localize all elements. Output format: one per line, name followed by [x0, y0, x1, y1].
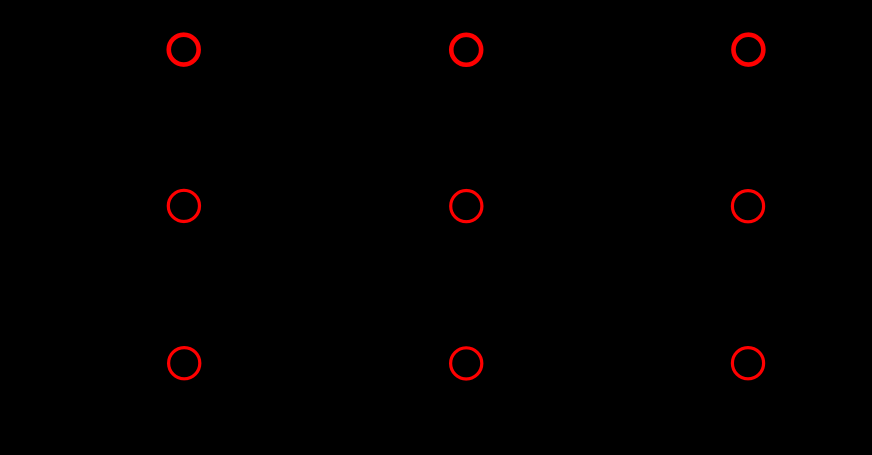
- wire: bond C19-C20: [608, 363, 679, 403]
- wire: bond C17-O8: [396, 374, 445, 403]
- wire: bond C4-C5: [537, 50, 608, 90]
- wire: bond C5-C6: [608, 50, 679, 90]
- wire: bond O4-C14 (left side descender): [140, 225, 175, 284]
- wire: bond O7-C15: [205, 374, 254, 403]
- oxygen atom O3 (top-right): [733, 35, 763, 65]
- wire: bond O1-C1: [205, 61, 254, 90]
- wire: bond C15-C16: [254, 363, 325, 403]
- wire: bond C11-C12: [325, 206, 396, 246]
- wire: bond C20-O9: [679, 374, 727, 403]
- wire: bond O5-C11: [396, 217, 445, 246]
- oxygen atom O9 (bottom-right): [732, 348, 763, 379]
- wire: bond C8-C9: [608, 206, 679, 246]
- wire: bond O2-C4: [487, 61, 537, 90]
- wire: bond C12-C13: [254, 206, 325, 246]
- wire: bond C2-C3: [325, 50, 396, 90]
- oxygen atom O6 (middle-right): [732, 191, 763, 222]
- wire: bond C9-C10: [537, 206, 608, 246]
- oxygen atom O4 (middle-left): [168, 190, 199, 221]
- wire: bond C16-C17: [325, 363, 396, 403]
- wire: bond C14-O7: [140, 284, 175, 344]
- oxygen atom O2 (top-middle): [451, 35, 481, 65]
- wire: bond C7-O6: [757, 128, 792, 187]
- wire: bond O9-CH3 (terminal methyl): [769, 374, 834, 410]
- wire: bond C13-O4: [205, 217, 254, 246]
- oxygen atom O5 (middle-middle): [451, 191, 482, 222]
- wire: bond C1-C2: [254, 50, 325, 90]
- wire: bond C6-O3: [679, 61, 727, 90]
- oxygen atom O8 (bottom-middle): [451, 348, 482, 379]
- wire: bond C18-C19: [537, 363, 608, 403]
- oxygen atom O1 (top-left): [169, 35, 199, 65]
- oxygen atom O7 (bottom-left): [169, 348, 200, 379]
- wire: bond C10-O5: [487, 217, 537, 246]
- wire: bond CH3-O1 (terminal methyl to O1): [98, 61, 163, 97]
- wire: bond O6-C8: [679, 217, 727, 246]
- wire: bond O8-C18: [487, 374, 537, 403]
- wire: bond O3-C7 (right side descender): [757, 69, 792, 128]
- wire: bond C3-O2: [396, 61, 445, 90]
